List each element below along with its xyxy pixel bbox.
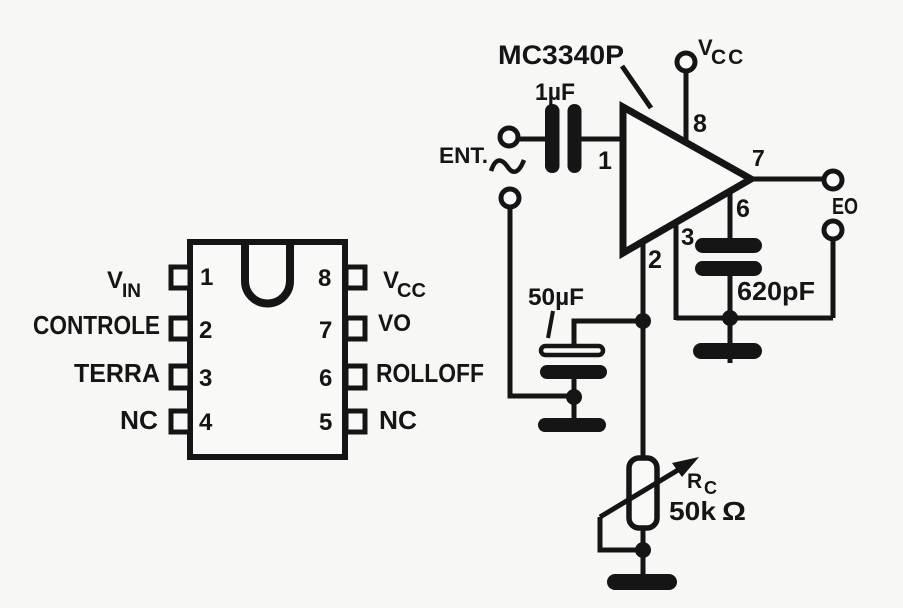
- wire junction to C2 top: [574, 321, 643, 346]
- arrow of variable resistor: [600, 464, 688, 517]
- resistor RC body: [629, 458, 657, 528]
- pin 4 pad: [171, 411, 190, 432]
- wire ENT to C1: [518, 137, 547, 142]
- wire pin 3 down: [674, 222, 679, 320]
- svg-text:C: C: [704, 478, 717, 498]
- svg-text:TERRA: TERRA: [74, 358, 160, 388]
- capacitor C2 bottom plate: [540, 365, 607, 379]
- svg-text:4: 4: [199, 409, 213, 436]
- svg-text:50µF: 50µF: [528, 284, 584, 311]
- svg-text:7: 7: [752, 145, 765, 171]
- capacitor C3 620pF: [695, 238, 762, 253]
- wire VCC to pin 8: [684, 71, 689, 143]
- wire EO bottom down: [831, 240, 836, 318]
- junction dot C2/ENT return: [566, 389, 582, 405]
- svg-text:Ω: Ω: [722, 496, 746, 526]
- op-amp U1 MC3340P triangle: [623, 107, 751, 253]
- wire C1 to pin 1: [580, 137, 623, 142]
- capacitor C2 50µF top plate (hollow): [541, 346, 603, 355]
- pin 7 pad: [346, 318, 365, 339]
- svg-text:NC: NC: [120, 405, 158, 435]
- svg-text:VO: VO: [378, 310, 411, 337]
- pin 2 pad: [171, 318, 190, 339]
- svg-text:1: 1: [200, 264, 213, 291]
- terminal EO top: [824, 171, 842, 189]
- leader line to amplifier: [622, 66, 651, 108]
- svg-text:IN: IN: [122, 281, 141, 302]
- svg-text:CC: CC: [397, 280, 426, 302]
- svg-text:CC: CC: [711, 46, 745, 69]
- svg-text:NC: NC: [379, 405, 417, 435]
- wire pin 6 to C3: [728, 191, 733, 240]
- terminal ENT bottom: [501, 189, 519, 207]
- svg-text:V: V: [107, 267, 123, 294]
- pin 1 pad: [171, 267, 190, 288]
- svg-text:MC3340P: MC3340P: [498, 40, 624, 70]
- junction dot below C3: [722, 310, 738, 326]
- leader slash 50µF: [548, 311, 553, 338]
- svg-text:ENT.: ENT.: [439, 143, 488, 168]
- pin 8 pad: [346, 267, 365, 288]
- svg-text:CONTROLE: CONTROLE: [33, 310, 160, 340]
- rail pin3 to EO: [676, 316, 833, 321]
- svg-text:3: 3: [199, 365, 212, 392]
- notch (pin-1 index): [245, 243, 290, 304]
- svg-text:3: 3: [681, 224, 694, 251]
- pin 5 pad: [346, 411, 365, 432]
- svg-text:ROLLOFF: ROLLOFF: [376, 358, 484, 388]
- terminal EO bottom: [824, 221, 842, 239]
- wire junction to ground: [728, 318, 733, 363]
- wiper return wire: [600, 517, 643, 550]
- svg-text:50k: 50k: [669, 496, 717, 526]
- svg-text:5: 5: [319, 409, 332, 436]
- ground (C2): [538, 418, 606, 432]
- svg-text:2: 2: [648, 246, 662, 274]
- terminal VCC: [677, 53, 695, 71]
- junction dot RC/wiper: [635, 542, 651, 558]
- svg-text:7: 7: [319, 317, 332, 344]
- svg-text:620pF: 620pF: [737, 276, 815, 306]
- capacitor C1 1µF: [545, 104, 560, 173]
- svg-text:R: R: [687, 470, 702, 493]
- svg-text:6: 6: [736, 195, 750, 223]
- wire ENT bottom to junction: [510, 207, 574, 396]
- terminal ENT top: [500, 128, 518, 146]
- wire pin 2 down to RC: [641, 241, 646, 460]
- wire C3 to rail: [728, 276, 733, 318]
- junction dot pin2/C2: [635, 313, 651, 329]
- svg-text:8: 8: [318, 265, 331, 292]
- ground (RC): [607, 574, 677, 590]
- svg-text:8: 8: [693, 110, 707, 138]
- IC body (DIP-8 package): [190, 242, 345, 457]
- svg-text:1µF: 1µF: [535, 79, 575, 106]
- wire RC to ground: [641, 528, 646, 578]
- ground (C3): [693, 343, 762, 359]
- pin 6 pad: [346, 366, 365, 388]
- wire C2 to ground: [572, 379, 577, 420]
- svg-text:EO: EO: [832, 193, 858, 219]
- pin 3 pad: [171, 366, 190, 388]
- svg-text:2: 2: [199, 317, 212, 344]
- svg-text:1: 1: [598, 147, 612, 175]
- wire output pin 7 to EO: [751, 177, 824, 182]
- ac tilde symbol: [491, 160, 524, 172]
- svg-text:6: 6: [319, 365, 332, 392]
